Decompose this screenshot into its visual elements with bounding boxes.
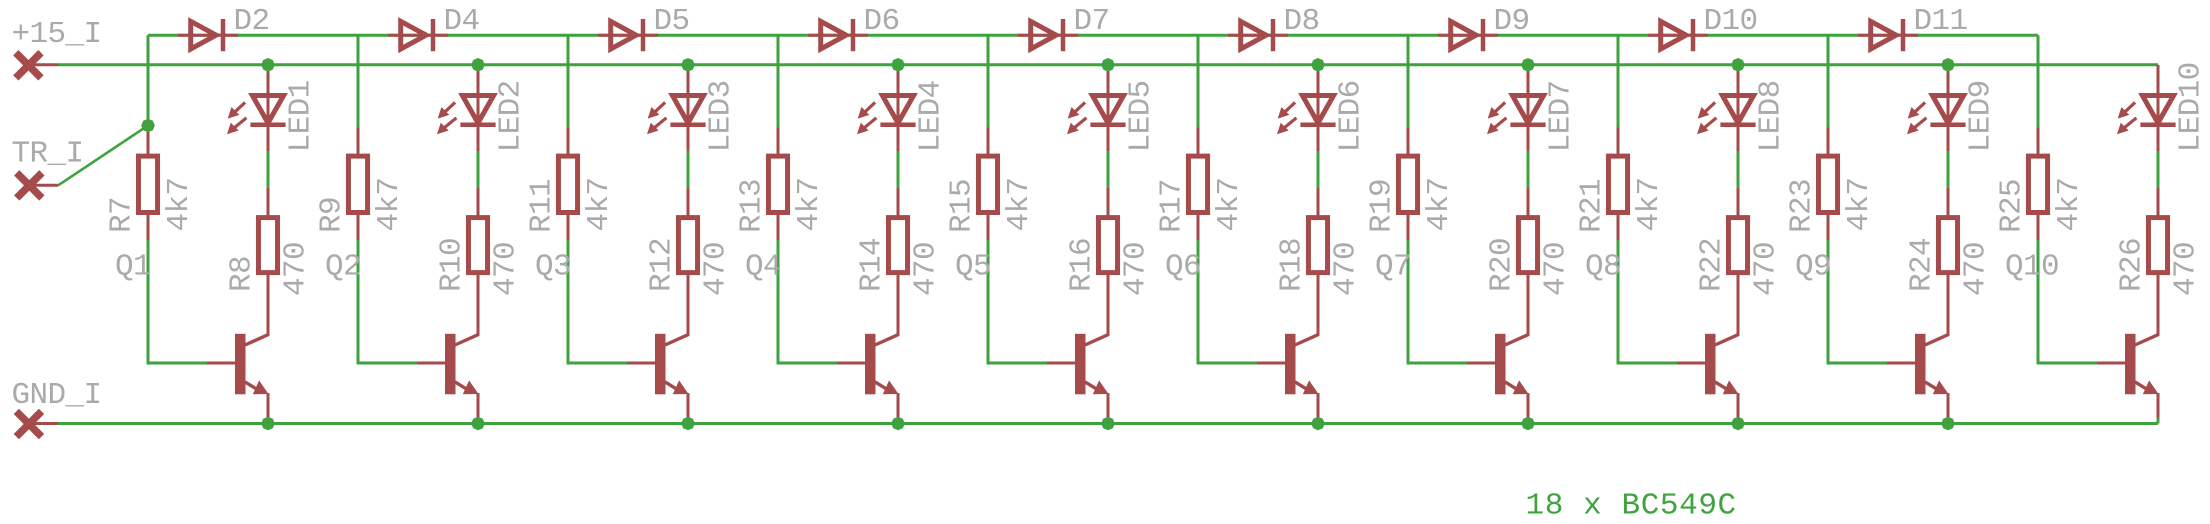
svg-text:4k7: 4k7 — [1842, 177, 1877, 231]
svg-text:4k7: 4k7 — [1002, 177, 1037, 231]
svg-text:470: 470 — [279, 242, 314, 296]
svg-text:Q2: Q2 — [325, 250, 361, 285]
svg-text:470: 470 — [1119, 242, 1154, 296]
svg-text:R24: R24 — [1905, 238, 1940, 292]
svg-text:Q4: Q4 — [745, 250, 781, 285]
svg-text:R7: R7 — [105, 197, 140, 233]
svg-text:LED10: LED10 — [2174, 62, 2209, 152]
svg-text:R23: R23 — [1785, 179, 1820, 233]
svg-text:R20: R20 — [1485, 238, 1520, 292]
svg-text:R18: R18 — [1275, 238, 1310, 292]
svg-text:470: 470 — [489, 242, 524, 296]
svg-text:+15_I: +15_I — [12, 17, 102, 52]
svg-text:470: 470 — [1749, 242, 1784, 296]
svg-text:Q3: Q3 — [535, 250, 571, 285]
svg-text:R16: R16 — [1065, 238, 1100, 292]
svg-text:470: 470 — [699, 242, 734, 296]
svg-text:TR_I: TR_I — [12, 137, 84, 172]
svg-text:LED5: LED5 — [1124, 80, 1159, 152]
svg-text:D7: D7 — [1074, 4, 1110, 39]
svg-text:Q10: Q10 — [2005, 250, 2059, 285]
svg-text:Q7: Q7 — [1375, 250, 1411, 285]
svg-text:R8: R8 — [225, 256, 260, 292]
svg-text:R13: R13 — [735, 179, 770, 233]
svg-text:470: 470 — [1959, 242, 1994, 296]
svg-text:D11: D11 — [1914, 4, 1968, 39]
svg-text:D4: D4 — [444, 4, 480, 39]
svg-text:LED7: LED7 — [1544, 80, 1579, 152]
svg-text:LED2: LED2 — [494, 80, 529, 152]
svg-text:R9: R9 — [315, 197, 350, 233]
svg-text:R17: R17 — [1155, 179, 1190, 233]
svg-text:LED4: LED4 — [914, 80, 949, 152]
svg-text:R15: R15 — [945, 179, 980, 233]
svg-text:R10: R10 — [435, 238, 470, 292]
svg-text:4k7: 4k7 — [1212, 177, 1247, 231]
svg-text:R11: R11 — [525, 179, 560, 233]
svg-text:D5: D5 — [654, 4, 690, 39]
svg-text:4k7: 4k7 — [582, 177, 617, 231]
svg-text:R21: R21 — [1575, 179, 1610, 233]
svg-text:D6: D6 — [864, 4, 900, 39]
svg-text:GND_I: GND_I — [12, 378, 102, 413]
svg-text:R12: R12 — [645, 238, 680, 292]
svg-text:LED6: LED6 — [1334, 80, 1369, 152]
svg-text:470: 470 — [2169, 242, 2204, 296]
svg-text:470: 470 — [909, 242, 944, 296]
svg-text:Q5: Q5 — [955, 250, 991, 285]
svg-text:LED9: LED9 — [1964, 80, 1999, 152]
svg-text:D10: D10 — [1704, 4, 1758, 39]
svg-text:4k7: 4k7 — [162, 177, 197, 231]
svg-text:LED3: LED3 — [704, 80, 739, 152]
svg-text:D2: D2 — [234, 4, 270, 39]
svg-text:LED8: LED8 — [1754, 80, 1789, 152]
svg-text:18 x BC549C: 18 x BC549C — [1526, 489, 1737, 524]
svg-text:4k7: 4k7 — [2052, 177, 2087, 231]
svg-text:D9: D9 — [1494, 4, 1530, 39]
svg-text:Q9: Q9 — [1795, 250, 1831, 285]
svg-text:4k7: 4k7 — [1422, 177, 1457, 231]
svg-text:D8: D8 — [1284, 4, 1320, 39]
svg-text:LED1: LED1 — [284, 80, 319, 152]
svg-text:Q1: Q1 — [115, 250, 151, 285]
svg-text:4k7: 4k7 — [792, 177, 827, 231]
svg-text:R25: R25 — [1995, 179, 2030, 233]
svg-text:4k7: 4k7 — [1632, 177, 1667, 231]
svg-text:R19: R19 — [1365, 179, 1400, 233]
svg-text:R26: R26 — [2115, 238, 2150, 292]
svg-text:Q8: Q8 — [1585, 250, 1621, 285]
svg-text:Q6: Q6 — [1165, 250, 1201, 285]
svg-text:R22: R22 — [1695, 238, 1730, 292]
svg-text:470: 470 — [1329, 242, 1364, 296]
svg-text:470: 470 — [1539, 242, 1574, 296]
svg-text:4k7: 4k7 — [372, 177, 407, 231]
svg-text:R14: R14 — [855, 238, 890, 292]
